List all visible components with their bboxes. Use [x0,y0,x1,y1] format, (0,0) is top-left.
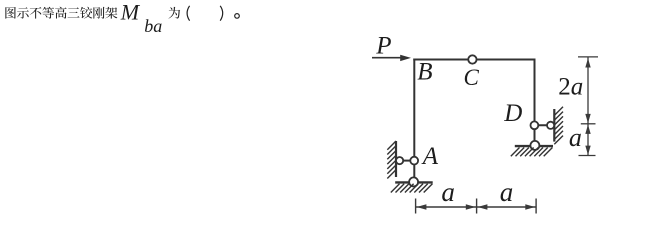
svg-text:a: a [500,177,514,207]
full stop 。 [235,14,240,19]
text 为 [169,7,181,19]
svg-text:B: B [417,59,432,86]
left column AB [413,59,415,182]
paren ( [187,6,190,21]
question text 图示不等高三铰刚架 [5,7,117,19]
force P arrow [372,55,411,61]
paren ) [220,6,223,21]
beam BC (top girder) [413,59,535,61]
wall at D [553,109,555,142]
ground line at D [515,145,553,147]
wall pin at A [396,157,403,164]
svg-text:A: A [421,143,439,170]
wall hatching at D [554,107,563,145]
ground hatching at D [511,148,553,157]
wall hatching at A [387,141,396,179]
svg-text:a: a [441,177,455,207]
hinge A [410,157,418,165]
svg-text:ba: ba [144,16,162,36]
svg-text:2a: 2a [558,74,583,101]
link bar at D [534,124,550,126]
svg-text:P: P [375,33,391,60]
svg-text:C: C [464,65,480,90]
hinge C [468,55,476,63]
wall pin at D [547,122,554,129]
link bar at A [400,160,415,162]
hinge D [531,121,539,129]
base pin below A [409,177,418,186]
ground hatching at A [391,184,433,193]
base pin below D [530,141,539,150]
dimension line bottom (a and a) [416,199,536,214]
ground line at A [395,181,433,183]
svg-text:a: a [569,123,582,152]
right column [534,59,536,146]
dimension line right (2a and a) [578,57,598,156]
svg-text:D: D [503,100,522,127]
wall at A [395,141,397,177]
svg-text:M: M [120,0,141,25]
